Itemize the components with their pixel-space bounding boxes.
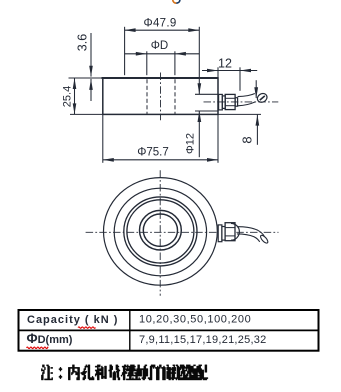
cut-off logo glyph at top bbox=[173, 0, 177, 3]
note text (Chinese, traced): 注：内孔和量程可自由选配 bbox=[41, 365, 208, 380]
table row divider bbox=[19, 329, 319, 331]
dimension 8 (cable offset) bbox=[255, 80, 257, 98]
horizontal centerline top view bbox=[86, 231, 279, 233]
red squiggle under phiD bbox=[27, 347, 49, 348]
cable gland top view: washer bbox=[218, 225, 222, 242]
svg-text:Capacity ( kN ): Capacity ( kN ) bbox=[27, 314, 118, 326]
top view circle 2 bbox=[114, 188, 206, 276]
dimension 12 (gland length) bbox=[202, 70, 257, 72]
dimension phi47.9 bbox=[125, 29, 200, 31]
load cell body outline (front view) bbox=[103, 78, 218, 115]
svg-text:10,20,30,50,100,200: 10,20,30,50,100,200 bbox=[139, 314, 251, 326]
svg-text:Φ75.7: Φ75.7 bbox=[137, 147, 169, 159]
spec table border bbox=[19, 310, 319, 351]
extension line phi47.9 left bbox=[124, 27, 126, 75]
cable gland front view: neck bbox=[235, 98, 238, 107]
svg-text:ΦD(mm): ΦD(mm) bbox=[27, 331, 73, 346]
top view inner hole ring inner bbox=[143, 214, 177, 246]
cable gland front view: step bbox=[222, 96, 225, 109]
svg-text:25.4: 25.4 bbox=[62, 86, 74, 107]
cable eyelet loop (front view) bbox=[256, 92, 269, 104]
extension line top-left bbox=[69, 77, 103, 79]
extension line right up (for dim 12) bbox=[217, 67, 219, 78]
dimension 25.4 (height) bbox=[74, 78, 76, 114]
cable (front view, bending up) bbox=[238, 94, 255, 97]
red squiggle under kN bbox=[78, 327, 96, 328]
phi12 dim line lower part bbox=[198, 111, 200, 157]
extension line right down (for dim 75.7) bbox=[217, 114, 219, 162]
svg-text:7,9,11,15,17,19,21,25,32: 7,9,11,15,17,19,21,25,32 bbox=[139, 334, 267, 346]
dimension phiD bbox=[125, 53, 200, 55]
top view circle 3 (double ring inner) bbox=[127, 200, 194, 263]
top view circle 3 (double ring outer) bbox=[124, 197, 197, 266]
extension line left down (for dim 75.7) bbox=[102, 114, 104, 162]
dimension phi75.7 bbox=[103, 159, 218, 161]
svg-text:Φ12: Φ12 bbox=[184, 133, 196, 154]
top view outer circle (phi75.7) bbox=[103, 178, 217, 286]
extension phi47.9 right merged with phi12 dim line upper part bbox=[198, 27, 200, 94]
horizontal centerline of gland (front view) bbox=[204, 101, 279, 103]
vertical centerline front view bbox=[160, 73, 162, 121]
cable gland top view: hex nut bbox=[225, 223, 235, 241]
hidden hole line right (phiD bore) bbox=[174, 79, 176, 114]
extension line bottom-right (for dim 8) bbox=[218, 113, 261, 115]
extension line bottom-left bbox=[70, 113, 102, 115]
svg-text:ΦD: ΦD bbox=[151, 40, 168, 52]
svg-text:12: 12 bbox=[218, 57, 232, 71]
cable gland top view: step bbox=[222, 227, 225, 241]
cable end cap (top view) bbox=[259, 234, 269, 244]
cable gland top view: dome bbox=[231, 223, 239, 240]
dimension phi12 arrows (gland bore) bbox=[198, 83, 202, 94]
gland bore hidden lines bbox=[195, 93, 219, 95]
svg-text:Φ47.9: Φ47.9 bbox=[143, 18, 176, 30]
svg-text:8: 8 bbox=[239, 136, 254, 143]
hidden hole line left (phiD bore) bbox=[146, 79, 148, 114]
cable gland front view: washer bbox=[219, 94, 223, 110]
vertical centerline top view bbox=[159, 170, 161, 295]
cable gland front view: hex nut bbox=[225, 94, 235, 109]
dimension 3.6 (step) bbox=[90, 33, 92, 77]
svg-text:3.6: 3.6 bbox=[76, 34, 90, 51]
extension phiD right bbox=[174, 51, 176, 75]
cable (top view, bending down) bbox=[237, 227, 264, 237]
top view inner hole ring outer bbox=[140, 210, 182, 250]
extension phiD left bbox=[146, 51, 148, 75]
extension line x=240 (for dim 12) bbox=[239, 67, 241, 91]
table column divider bbox=[129, 310, 131, 351]
